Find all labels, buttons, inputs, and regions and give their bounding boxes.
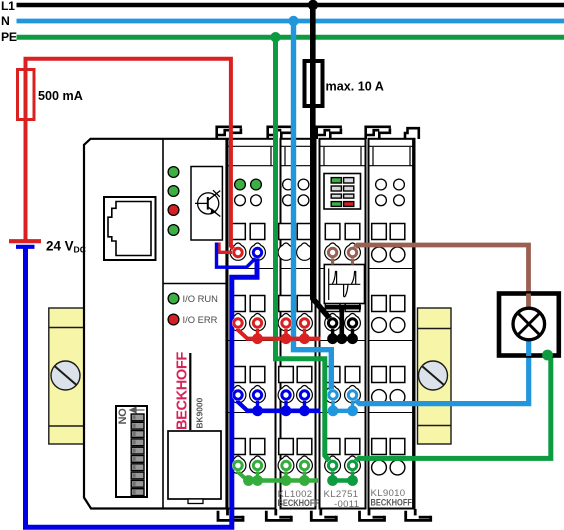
black stub bbox=[331, 326, 334, 339]
wire blue elbow CC pin1 row3 bbox=[238, 399, 248, 411]
PWM waveform bbox=[329, 269, 361, 301]
svg-text:PE: PE bbox=[1, 30, 17, 44]
brown stub 2 bbox=[351, 257, 354, 265]
DIN clip 1 bbox=[217, 127, 242, 139]
svg-text:BECKHOFF: BECKHOFF bbox=[278, 498, 320, 508]
brown stub 1 bbox=[331, 257, 334, 265]
wire black through fuse bbox=[310, 63, 316, 104]
RJ45 ethernet jack outline bbox=[104, 197, 156, 260]
BK9000 power contact column groove lines bbox=[228, 146, 276, 165]
DIP switch 1 bbox=[131, 414, 144, 421]
CC contact row3 pin1 bbox=[230, 386, 246, 403]
end bracket right (yellow) bbox=[418, 308, 452, 444]
BK9000 power section box bbox=[191, 167, 222, 241]
junction lightblue row3 bbox=[347, 405, 358, 416]
CC contact row1 pin1 bbox=[230, 243, 246, 260]
wire black PWM output drop bbox=[339, 307, 344, 339]
svg-text:BK9000: BK9000 bbox=[195, 397, 205, 428]
KL1002 indicator bbox=[298, 179, 309, 190]
KL2751 LED r1c1 bbox=[331, 178, 341, 183]
CC contact row2 pin2 bbox=[250, 314, 266, 331]
RJ45 ethernet jack inner profile bbox=[108, 202, 151, 256]
wire lightblue to lamp bbox=[354, 339, 529, 404]
KL2751 clamp opening row3 b bbox=[345, 367, 360, 383]
svg-text:I/O RUN: I/O RUN bbox=[183, 293, 218, 304]
terminal KL9010 row separators bbox=[369, 269, 415, 413]
DIP switch 7 bbox=[131, 464, 144, 471]
ring red row2 bbox=[252, 317, 264, 329]
BK9000 power contact column body bbox=[228, 139, 276, 509]
junction on L1 bbox=[308, 0, 318, 10]
BK9000 internal divider bbox=[162, 139, 164, 509]
KL9010 clamp opening row1 a bbox=[372, 224, 387, 240]
net PE bus wire bbox=[17, 35, 564, 40]
wire green row4 bridge KL2751 bbox=[333, 478, 353, 482]
KL9010 indicator bbox=[376, 195, 387, 206]
junction black row2 bbox=[347, 333, 358, 344]
wire blue 0V distribution row3 bbox=[246, 408, 321, 413]
KL9010 clamp opening row4 a bbox=[372, 439, 387, 455]
KL1002 clamp opening row2 a bbox=[279, 296, 294, 312]
svg-text:N: N bbox=[1, 14, 10, 28]
wire lightblue N drop bbox=[294, 21, 332, 392]
KL2751 contact row1 pin1 bbox=[325, 243, 341, 260]
wire green lamp return bbox=[354, 354, 551, 464]
DIP switch 5 bbox=[131, 447, 144, 454]
wire green PE distribution row4 bbox=[249, 478, 319, 482]
wire brown inside lamp box bbox=[526, 294, 531, 310]
terminal KL9010 body bbox=[369, 139, 415, 509]
KL9010 contact row3 pin1 bbox=[372, 390, 387, 405]
DIP switch 8 bbox=[131, 472, 144, 479]
red stub bbox=[284, 326, 287, 339]
ring blue row3 bbox=[280, 389, 292, 401]
green stub bbox=[351, 468, 354, 481]
wire green PE drop bbox=[276, 37, 331, 463]
ring red row2 bbox=[232, 317, 244, 329]
green stub bbox=[256, 468, 259, 481]
ring green row4 bbox=[280, 460, 292, 472]
ring blue row3 bbox=[299, 389, 311, 401]
CC LED a (green) bbox=[235, 179, 246, 190]
green stub bbox=[303, 468, 306, 481]
junction red row2 bbox=[299, 333, 310, 344]
KL2751 contact row3 pin2 bbox=[345, 386, 361, 403]
KL2751 clamp opening row4 a bbox=[325, 439, 340, 455]
CC clamp opening row1 a bbox=[231, 224, 246, 240]
net L1 bus wire bbox=[17, 3, 564, 8]
DIN foot 2 bbox=[266, 509, 291, 520]
BK9000 LED 3 (red) bbox=[168, 205, 179, 216]
KL2751 ring lightblue bbox=[327, 389, 339, 401]
ring red row2 bbox=[280, 317, 292, 329]
DIP switch 10 bbox=[131, 489, 144, 496]
wire black row2 bridge bbox=[333, 337, 353, 341]
KL2751 LED r1c2 bbox=[344, 178, 354, 183]
ring blue row3 bbox=[252, 389, 264, 401]
DIP switch 9 bbox=[131, 480, 144, 487]
svg-text:-0011: -0011 bbox=[334, 499, 359, 510]
KL2751 ring lightblue bbox=[347, 389, 359, 401]
svg-text:BECKHOFF: BECKHOFF bbox=[175, 352, 191, 430]
KL2751 LED r2c2 bbox=[344, 186, 354, 191]
KL1002 contact row4 pin1 bbox=[278, 456, 294, 473]
KL9010 indicator bbox=[376, 179, 387, 190]
KL1002 indicator bbox=[298, 195, 309, 206]
DIN foot 5 bbox=[406, 509, 431, 520]
KL9010 contact row1 pin1 bbox=[372, 247, 387, 262]
KL1002 contact row1 pin2 bbox=[297, 243, 313, 260]
KL9010 clamp opening row1 b bbox=[390, 224, 405, 240]
KL9010 contact row2 pin1 bbox=[372, 318, 387, 333]
DIN clip 5 (end) bbox=[405, 128, 419, 139]
KL1002 clamp opening row3 b bbox=[297, 367, 312, 383]
DIP switch block bbox=[116, 406, 147, 497]
lightblue stub bbox=[331, 398, 334, 411]
KL2751 LED r4c2 bbox=[344, 202, 354, 207]
blue stub bbox=[256, 398, 259, 411]
wire blue stub to power section bbox=[217, 243, 257, 268]
ring green row4 bbox=[299, 460, 311, 472]
junction blue row3 bbox=[281, 405, 292, 416]
junction green elbow bbox=[243, 475, 254, 486]
junction green lamp corner bbox=[542, 350, 553, 361]
terminal KL2751 groove lines bbox=[320, 146, 366, 165]
wire lightblue inside lamp box bbox=[526, 339, 531, 356]
KL2751 PWM symbol box bbox=[324, 265, 364, 304]
CC indicator a bbox=[235, 195, 246, 206]
blue stub bbox=[284, 398, 287, 411]
CC contact row3 pin2 bbox=[250, 386, 266, 403]
BK9000 connector tab bbox=[188, 499, 203, 504]
CC clamp opening row2 a bbox=[231, 296, 246, 312]
wire blue 0V return (contact to battery -) bbox=[26, 248, 258, 527]
DIP switch 3 bbox=[131, 431, 144, 438]
black stub bbox=[351, 326, 354, 339]
end bracket right screw bbox=[419, 361, 448, 390]
junction green row4 bbox=[252, 475, 263, 486]
wire red elbow CC pin1 row2 bbox=[238, 327, 248, 339]
svg-text:max. 10 A: max. 10 A bbox=[326, 80, 384, 94]
DIP arrow bbox=[130, 407, 145, 412]
KL2751 contact row2 pin2 bbox=[345, 314, 361, 331]
wire red 24V feed (battery + to fuse to BK9000) bbox=[26, 59, 236, 251]
CC LED b (green) bbox=[251, 179, 262, 190]
KL1002 contact row1 pin1 bbox=[278, 243, 294, 260]
CC clamp opening row2 b bbox=[250, 296, 265, 312]
junction lightblue row3 bbox=[328, 405, 339, 416]
logo underline bbox=[189, 353, 191, 430]
CC contact ring 0V bbox=[252, 247, 264, 259]
svg-text:L1: L1 bbox=[1, 0, 15, 13]
end bracket left screw bbox=[51, 361, 80, 390]
junction red row2 bbox=[252, 333, 263, 344]
battery negative plate bbox=[16, 245, 35, 249]
KL1002 contact row3 pin2 bbox=[297, 386, 313, 403]
green stub bbox=[284, 468, 287, 481]
green stub bbox=[331, 468, 334, 481]
KL1002 clamp opening row1 b bbox=[297, 224, 312, 240]
KL2751 clamp opening row1 b bbox=[345, 224, 360, 240]
BK9000 LED 2 (green) bbox=[168, 186, 179, 197]
KL2751 clamp opening row2 b bbox=[345, 296, 360, 312]
fuse F1 500 mA bbox=[18, 70, 35, 120]
junction green row4 bbox=[327, 475, 338, 486]
BK9000 power contact column latch lines bbox=[232, 147, 271, 166]
KL1002 contact row2 pin2 bbox=[297, 314, 313, 331]
ring red row2 bbox=[299, 317, 311, 329]
CC clamp opening row3 a bbox=[231, 367, 246, 383]
I/O RUN LED (green) bbox=[168, 293, 179, 304]
KL2751 clamp opening row2 a bbox=[325, 296, 340, 312]
ring blue row3 bbox=[232, 389, 244, 401]
CC indicator b bbox=[251, 195, 262, 206]
terminal KL9010 groove lines bbox=[369, 146, 415, 165]
KL1002 clamp opening row3 a bbox=[279, 367, 294, 383]
junction blue row3 bbox=[252, 405, 263, 416]
KL1002 clamp opening row2 b bbox=[297, 296, 312, 312]
KL9010 clamp opening row3 b bbox=[390, 367, 405, 383]
junction green row4 bbox=[347, 475, 358, 486]
KL2751 LED r3c2 bbox=[344, 194, 354, 198]
BK9000 section divider bbox=[163, 283, 227, 285]
junction on N bbox=[288, 16, 298, 26]
KL2751 clamp opening row4 b bbox=[345, 439, 360, 455]
CC contact row1 pin2 bbox=[250, 243, 266, 260]
CC contact ring +24V bbox=[232, 247, 244, 259]
DIP switch 4 bbox=[131, 439, 144, 446]
svg-text:ON: ON bbox=[115, 408, 127, 424]
KL9010 contact row3 pin2 bbox=[390, 390, 405, 405]
KL1002 contact row4 pin2 bbox=[297, 456, 313, 473]
junction green row4 bbox=[299, 475, 310, 486]
bus coupler BK9000 body bbox=[84, 139, 227, 509]
red stub bbox=[256, 326, 259, 339]
junction black row2 bbox=[327, 333, 338, 344]
terminal KL1002 body bbox=[281, 139, 316, 509]
KL2751 contact row3 pin1 bbox=[325, 386, 341, 403]
KL9010 clamp opening row2 b bbox=[390, 296, 405, 312]
KL1002 indicator bbox=[283, 179, 294, 190]
KL2751 LED r3c1 bbox=[331, 194, 341, 198]
KL2751 LED panel bbox=[324, 174, 361, 210]
fuse F2 max 10 A bbox=[305, 61, 323, 106]
KL2751 clamp opening row3 a bbox=[325, 367, 340, 383]
KL1002 clamp opening row1 a bbox=[279, 224, 294, 240]
KL2751 LED r4c1 bbox=[331, 202, 341, 207]
wire black L1 drop through fuse bbox=[313, 5, 331, 320]
DIN clip 3 bbox=[317, 127, 342, 139]
KL9010 clamp opening row3 a bbox=[372, 367, 387, 383]
lamp E1 box bbox=[499, 294, 559, 356]
KL9010 contact row4 pin1 bbox=[372, 460, 387, 475]
CC contact row2 pin1 bbox=[230, 314, 246, 331]
lightblue stub bbox=[351, 398, 354, 411]
DIN clip 4 bbox=[366, 127, 391, 139]
wire lightblue row3 bridge KL2751 bbox=[333, 409, 353, 413]
DIN foot 1 bbox=[218, 509, 243, 520]
KL1002 clamp opening row4 b bbox=[297, 439, 312, 455]
KL9010 end face edge bbox=[412, 140, 415, 509]
ring green row4 bbox=[232, 460, 244, 472]
KL2751 ring black bbox=[327, 317, 339, 329]
DIN clip 2 bbox=[268, 127, 293, 139]
KL2751 contact row1 pin2 bbox=[345, 243, 361, 260]
KL9010 clamp opening row4 b bbox=[390, 439, 405, 455]
wire green elbow CC pin1 bbox=[238, 469, 248, 481]
KL9010 contact row2 pin2 bbox=[390, 318, 405, 333]
KL2751 contact row4 pin1 bbox=[325, 456, 341, 473]
wire brown to lamp bbox=[353, 245, 529, 307]
KL1002 contact row3 pin1 bbox=[278, 386, 294, 403]
KL2751 ring brown 2 bbox=[347, 247, 359, 259]
ring green row4 bbox=[252, 460, 264, 472]
DIN foot 4 bbox=[360, 509, 385, 520]
wire red stub to power section bbox=[219, 243, 233, 253]
CC clamp opening row3 b bbox=[250, 367, 265, 383]
DIN foot 3 bbox=[311, 509, 336, 520]
terminal KL9010 latch lines bbox=[373, 147, 410, 166]
KL1002 contact row2 pin1 bbox=[278, 314, 294, 331]
I/O ERR LED (red) bbox=[168, 314, 179, 325]
net N bus wire bbox=[17, 19, 564, 24]
terminal KL2751 body bbox=[320, 139, 366, 509]
KL9010 indicator bbox=[394, 195, 405, 206]
KL9010 contact row4 pin2 bbox=[390, 460, 405, 475]
svg-text:500 mA: 500 mA bbox=[38, 89, 83, 103]
KL2751 LED r2c1 bbox=[331, 186, 341, 191]
BK9000 LED 4 (green) bbox=[168, 225, 179, 236]
CC contact row4 pin2 bbox=[250, 456, 266, 473]
svg-text:I/O ERR: I/O ERR bbox=[183, 314, 218, 325]
battery positive plate bbox=[9, 239, 41, 243]
terminal KL2751 latch lines bbox=[324, 147, 361, 166]
CC clamp opening row1 b bbox=[250, 224, 265, 240]
wire black PWM output bar bbox=[325, 305, 361, 310]
KL9010 contact row1 pin2 bbox=[390, 247, 405, 262]
KL2751 ring black bbox=[347, 317, 359, 329]
KL2751 contact row2 pin1 bbox=[325, 314, 341, 331]
junction green row4 bbox=[281, 475, 292, 486]
BK9000 LED 1 (green) bbox=[168, 167, 179, 178]
terminal KL1002 latch lines bbox=[285, 147, 311, 166]
KL2751 clamp opening row1 a bbox=[325, 224, 340, 240]
CC clamp opening row4 b bbox=[250, 439, 265, 455]
svg-text:BECKHOFF: BECKHOFF bbox=[371, 498, 413, 508]
blue stub bbox=[303, 398, 306, 411]
KL1002 clamp opening row4 a bbox=[279, 439, 294, 455]
KL2751 contact row4 pin2 bbox=[345, 456, 361, 473]
DIP switch 2 bbox=[131, 422, 144, 429]
KL9010 clamp opening row2 a bbox=[372, 296, 387, 312]
CC contact row4 pin1 bbox=[230, 456, 246, 473]
KL9010 indicator bbox=[394, 179, 405, 190]
KL1002 indicator bbox=[283, 195, 294, 206]
red stub bbox=[303, 326, 306, 339]
terminal KL1002 row separators bbox=[281, 269, 316, 413]
end bracket left (yellow) bbox=[49, 308, 84, 444]
KL2751 ring brown 1 bbox=[327, 247, 339, 259]
transistor symbol bbox=[195, 190, 220, 216]
terminal KL1002 groove lines bbox=[281, 146, 316, 165]
BK9000 bottom connector bbox=[168, 431, 221, 499]
junction on PE bbox=[270, 32, 280, 42]
KL2751 ring green bbox=[347, 460, 359, 472]
DIP switch 6 bbox=[131, 456, 144, 463]
terminal KL2751 row separators bbox=[320, 269, 366, 413]
KL2751 ring green bbox=[327, 460, 339, 472]
junction blue row3 bbox=[299, 405, 310, 416]
junction black center bbox=[336, 333, 347, 344]
wire red +24V distribution row2 bbox=[246, 337, 321, 341]
BK9000 power contact column row separators bbox=[228, 269, 276, 413]
CC clamp opening row4 a bbox=[231, 439, 246, 455]
lamp E1 symbol bbox=[513, 308, 545, 340]
junction red row2 bbox=[281, 333, 292, 344]
